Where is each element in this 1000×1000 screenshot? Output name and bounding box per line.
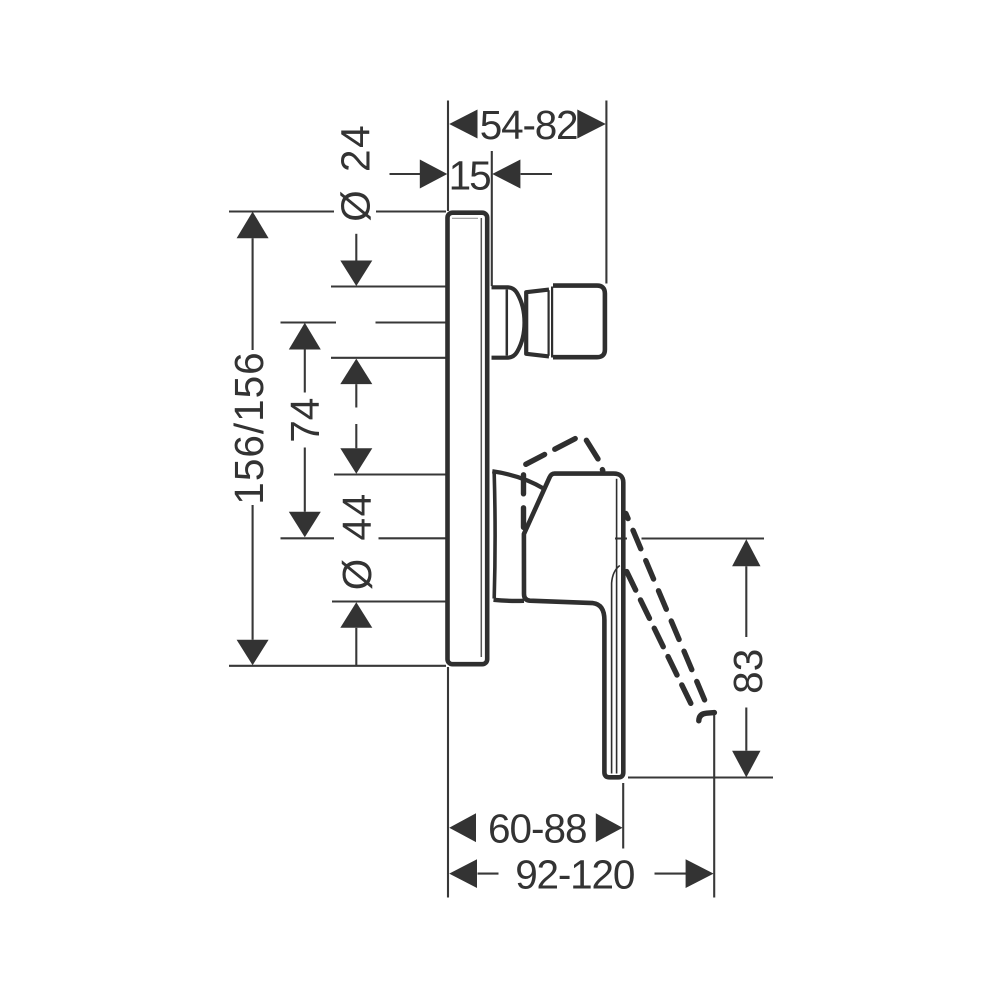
svg-text:74: 74 (282, 398, 328, 443)
svg-text:Ø 44: Ø 44 (334, 492, 380, 590)
svg-text:Ø 24: Ø 24 (333, 124, 379, 222)
svg-text:92-120: 92-120 (515, 852, 634, 898)
svg-text:15: 15 (449, 153, 491, 199)
svg-text:83: 83 (725, 649, 771, 694)
svg-text:156/156: 156/156 (226, 351, 272, 504)
svg-text:54-82: 54-82 (480, 102, 578, 148)
svg-text:60-88: 60-88 (488, 806, 587, 852)
